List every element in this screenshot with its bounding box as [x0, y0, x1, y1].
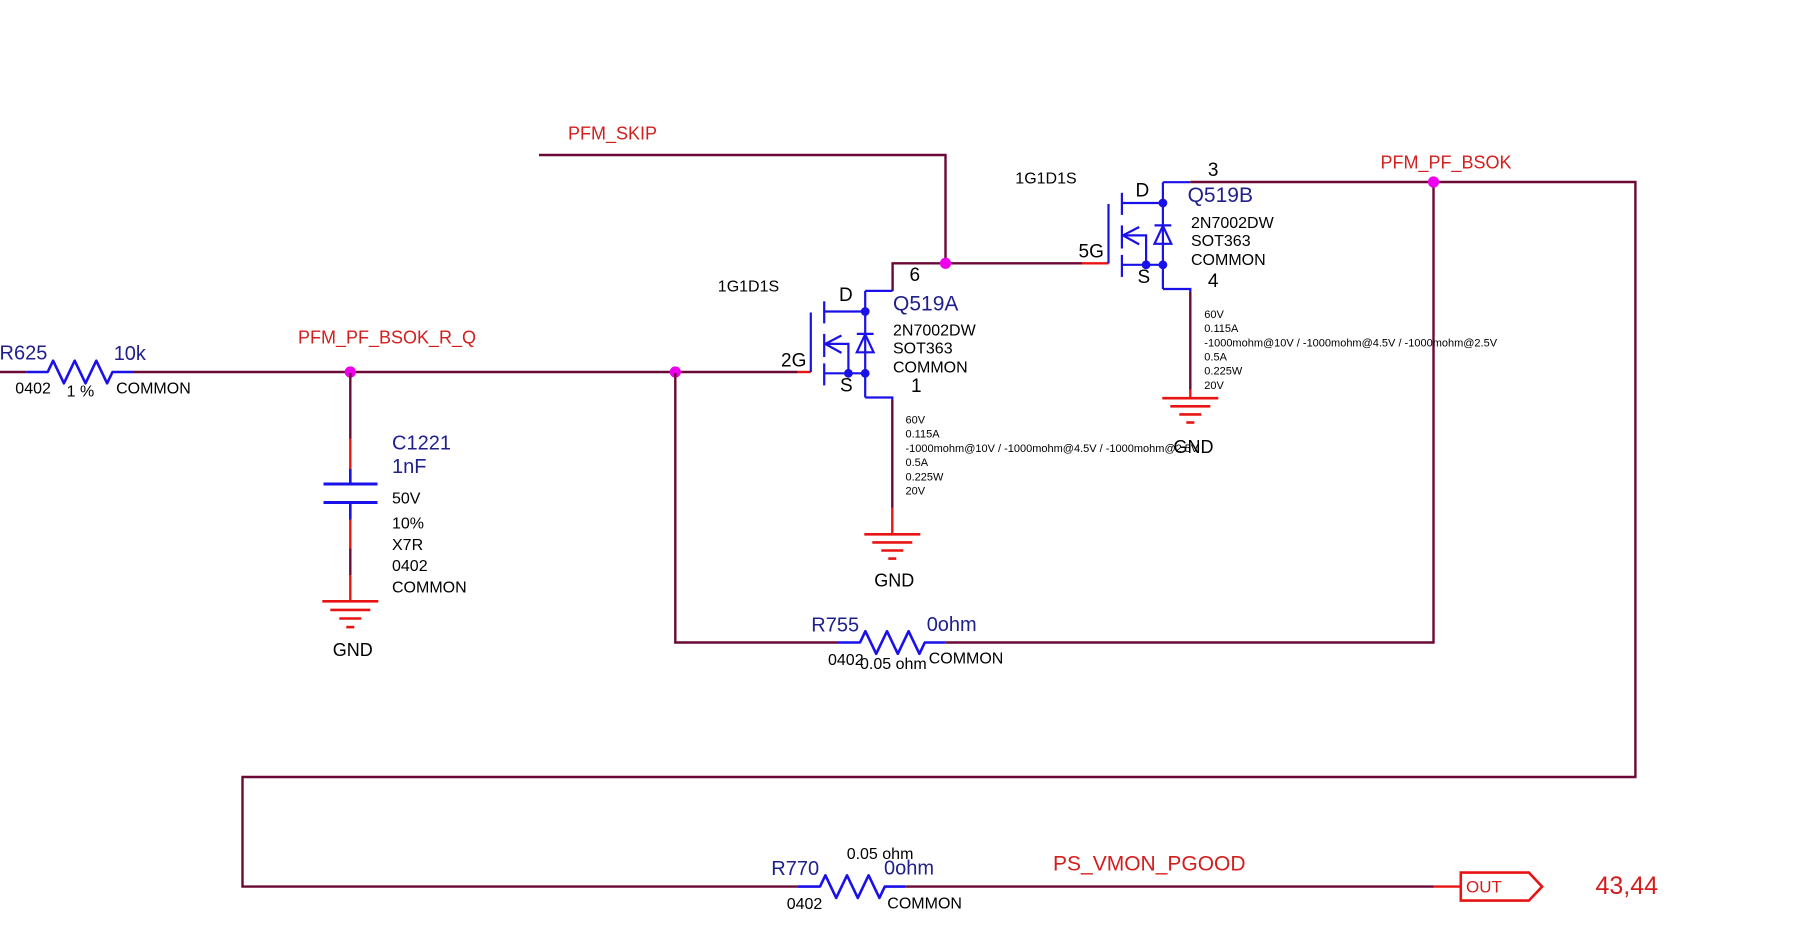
- wire main left net PFM_PF_BSOK_R_Q (left of R625): [0, 371, 26, 373]
- svg-text:D: D: [1136, 181, 1150, 202]
- svg-text:1G1D1S: 1G1D1S: [718, 278, 779, 295]
- svg-text:1G1D1S: 1G1D1S: [1015, 170, 1076, 187]
- label R755: [811, 615, 859, 637]
- svg-text:X7R: X7R: [392, 537, 423, 554]
- svg-text:R755: R755: [811, 615, 859, 637]
- label R770: [771, 858, 819, 880]
- svg-text:COMMON: COMMON: [893, 360, 968, 377]
- svg-text:0.225W: 0.225W: [1204, 366, 1243, 378]
- label 43,44: [1596, 872, 1659, 900]
- label COMMON (Q519A): [893, 360, 968, 377]
- svg-text:20V: 20V: [906, 486, 926, 498]
- property COMMON (C1221): [392, 580, 467, 597]
- property X7R (C1221): [392, 537, 423, 554]
- svg-text:10%: 10%: [392, 516, 424, 533]
- label C1221: [392, 432, 451, 454]
- svg-text:GND: GND: [333, 640, 373, 660]
- svg-text:1nF: 1nF: [392, 456, 426, 478]
- transistor Q519B: [1109, 182, 1191, 292]
- svg-text:0.225W: 0.225W: [906, 471, 945, 483]
- junction at R755 tap: [670, 366, 681, 377]
- pin number 2 and label G (Q519A): [781, 350, 806, 371]
- wire gate row of Q519B (from Q519A drain corner through junction): [893, 263, 1082, 291]
- svg-text:0.5A: 0.5A: [906, 457, 929, 469]
- junction at PFM_SKIP node: [940, 258, 951, 269]
- svg-text:0.5A: 0.5A: [1204, 352, 1227, 364]
- label GND (Q519A): [874, 571, 914, 591]
- label COMMON (Q519B): [1191, 252, 1266, 269]
- svg-text:43,44: 43,44: [1596, 872, 1659, 900]
- capacitor C1221: [324, 469, 378, 520]
- svg-text:OUT: OUT: [1466, 878, 1502, 897]
- svg-text:2N7002DW: 2N7002DW: [893, 323, 977, 340]
- svg-text:0402: 0402: [15, 380, 51, 397]
- svg-text:0.05 ohm: 0.05 ohm: [860, 656, 927, 673]
- label GND (Q519B): [1174, 437, 1214, 457]
- wire R755 left branch (down from junction, right to R755): [675, 373, 838, 643]
- svg-text:0ohm: 0ohm: [927, 614, 977, 636]
- ground symbol GND3 (Q519B): [1162, 398, 1218, 422]
- resistor R625: [26, 361, 134, 384]
- pin number 5 and label G (Q519B): [1079, 242, 1104, 263]
- pin label D (Q519B): [1136, 181, 1150, 202]
- svg-text:2G: 2G: [781, 350, 806, 371]
- pin stub C1221 bottom: [349, 520, 351, 549]
- parameters (Q519A): [906, 415, 1199, 498]
- svg-text:1: 1: [911, 376, 922, 397]
- property 0402 (R770): [787, 896, 823, 913]
- label Q519B: [1188, 184, 1253, 207]
- label 1G1D1S (Q519B): [1015, 170, 1076, 187]
- svg-text:COMMON: COMMON: [887, 895, 962, 912]
- wire C1221 tap vertical: [349, 373, 351, 439]
- svg-text:R625: R625: [0, 342, 47, 364]
- svg-text:6: 6: [910, 265, 921, 286]
- pin number 6 (Q519A): [910, 265, 921, 286]
- net label PFM_PF_BSOK_R_Q: [298, 327, 476, 348]
- label 2N7002DW (Q519B): [1191, 215, 1275, 232]
- resistor R755: [838, 631, 945, 654]
- svg-text:D: D: [839, 285, 853, 306]
- svg-text:C1221: C1221: [392, 432, 451, 454]
- svg-text:S: S: [840, 376, 853, 397]
- svg-text:SOT363: SOT363: [893, 341, 953, 358]
- pin stub G of Q519A: [798, 371, 811, 373]
- label OUT: [1466, 878, 1502, 897]
- svg-text:-1000mohm@10V / -1000mohm@4.5V: -1000mohm@10V / -1000mohm@4.5V / -1000mo…: [906, 443, 1199, 455]
- wire main left net (R625 to Q519A gate): [134, 371, 798, 373]
- svg-text:COMMON: COMMON: [392, 580, 467, 597]
- junction at C1221 tap: [345, 366, 356, 377]
- svg-text:PFM_SKIP: PFM_SKIP: [568, 123, 657, 144]
- pin label S (Q519A): [840, 376, 853, 397]
- label Q519A: [893, 293, 958, 316]
- label 2N7002DW (Q519A): [893, 323, 977, 340]
- ground symbol GND1 (C1221): [322, 601, 378, 627]
- svg-text:3: 3: [1208, 160, 1219, 181]
- svg-text:COMMON: COMMON: [929, 651, 1004, 668]
- svg-text:GND: GND: [1174, 437, 1214, 457]
- parameters (Q519B): [1204, 309, 1497, 392]
- pin stub GND (C1221): [349, 575, 351, 601]
- label SOT363 (Q519B): [1191, 233, 1251, 250]
- pin number 3 (Q519B): [1208, 160, 1219, 181]
- svg-text:Q519B: Q519B: [1188, 184, 1253, 207]
- pin number 4 (Q519B): [1208, 271, 1219, 292]
- pin number 1 (Q519A): [911, 376, 922, 397]
- property COMMON (R755): [929, 651, 1004, 668]
- pin stub OUT port: [1434, 885, 1461, 887]
- svg-text:0.115A: 0.115A: [906, 429, 941, 441]
- pin stub GND (Q519B): [1189, 390, 1191, 399]
- wire R755 right to PFM_PF_BSOK vertical: [945, 182, 1433, 643]
- property 0.05 ohm (R770): [847, 846, 914, 863]
- label GND (C1221): [333, 640, 373, 660]
- property 10% (C1221): [392, 516, 424, 533]
- property 0.05 ohm (R755): [860, 656, 927, 673]
- junction at PFM_PF_BSOK: [1428, 176, 1439, 187]
- svg-text:R770: R770: [771, 858, 819, 880]
- pin label S (Q519B): [1138, 267, 1151, 288]
- property 0402 (R625): [15, 380, 51, 397]
- wire C1221 to GND: [349, 549, 351, 576]
- svg-text:0.115A: 0.115A: [1204, 323, 1239, 335]
- value 0ohm (R755): [927, 614, 977, 636]
- svg-text:10k: 10k: [114, 343, 147, 365]
- svg-text:PFM_PF_BSOK_R_Q: PFM_PF_BSOK_R_Q: [298, 327, 476, 348]
- transistor Q519A: [811, 291, 893, 400]
- net label PFM_PF_BSOK: [1381, 152, 1512, 173]
- svg-text:GND: GND: [874, 571, 914, 591]
- resistor R770: [797, 875, 905, 898]
- wire R770 to OUT: [905, 885, 1433, 887]
- net label PFM_SKIP: [568, 123, 657, 144]
- svg-text:5G: 5G: [1079, 242, 1104, 263]
- svg-text:-1000mohm@10V / -1000mohm@4.5V: -1000mohm@10V / -1000mohm@4.5V / -1000mo…: [1204, 337, 1497, 349]
- value 1nF: [392, 456, 426, 478]
- svg-text:PS_VMON_PGOOD: PS_VMON_PGOOD: [1053, 853, 1246, 876]
- property 1 % (R625): [67, 383, 95, 400]
- pin label D (Q519A): [839, 285, 853, 306]
- port symbol OUT: [1461, 873, 1542, 901]
- label 1G1D1S (Q519A): [718, 278, 779, 295]
- property 0402 (C1221): [392, 558, 428, 575]
- pin stub C1221 top: [349, 439, 351, 470]
- pin stub GND (Q519A): [891, 508, 893, 535]
- svg-text:2N7002DW: 2N7002DW: [1191, 215, 1275, 232]
- wire PFM_SKIP net (horizontal then down to junction): [539, 155, 946, 263]
- property COMMON (R625): [116, 380, 191, 397]
- svg-text:COMMON: COMMON: [1191, 252, 1266, 269]
- ground symbol GND2 (Q519A): [864, 534, 920, 558]
- wire Q519B source to GND: [1189, 292, 1191, 390]
- svg-text:60V: 60V: [1204, 309, 1224, 321]
- svg-text:PFM_PF_BSOK: PFM_PF_BSOK: [1381, 152, 1512, 173]
- property 50V (C1221): [392, 490, 421, 507]
- pin stub G of Q519B: [1082, 262, 1109, 264]
- svg-text:20V: 20V: [1204, 380, 1224, 392]
- svg-text:0.05 ohm: 0.05 ohm: [847, 846, 914, 863]
- value 10k: [114, 343, 147, 365]
- label R625: [0, 342, 47, 364]
- svg-text:0402: 0402: [392, 558, 428, 575]
- label SOT363 (Q519A): [893, 341, 953, 358]
- svg-text:50V: 50V: [392, 490, 421, 507]
- net label PS_VMON_PGOOD: [1053, 853, 1246, 876]
- svg-text:0402: 0402: [787, 896, 823, 913]
- svg-text:60V: 60V: [906, 415, 926, 427]
- svg-text:0402: 0402: [828, 652, 864, 669]
- svg-text:SOT363: SOT363: [1191, 233, 1251, 250]
- svg-text:4: 4: [1208, 271, 1219, 292]
- svg-text:1 %: 1 %: [67, 383, 95, 400]
- wire Q519A source to GND: [891, 400, 893, 508]
- value 0ohm (R770): [884, 857, 934, 879]
- wire PFM_PF_BSOK top run and right loop down to bottom row: [243, 182, 1636, 887]
- svg-text:Q519A: Q519A: [893, 293, 958, 316]
- property COMMON (R770): [887, 895, 962, 912]
- svg-text:S: S: [1138, 267, 1151, 288]
- svg-text:COMMON: COMMON: [116, 380, 191, 397]
- property 0402 (R755): [828, 652, 864, 669]
